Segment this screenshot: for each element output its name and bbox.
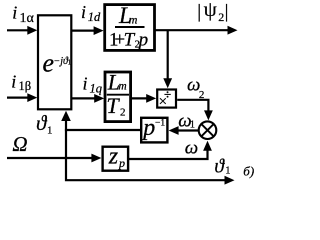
wire theta1 down and along bottom to output <box>66 130 226 180</box>
svg-text:1d: 1d <box>88 10 101 24</box>
svg-text:1: 1 <box>47 125 53 137</box>
block G2 Lm/T2 <box>105 72 131 122</box>
wire G2 output to divider <box>132 97 148 99</box>
wire i1q from U1 to G2 <box>71 97 96 99</box>
svg-text:1α: 1α <box>20 11 35 26</box>
svg-text:p: p <box>118 156 125 170</box>
svg-text:ϑ: ϑ <box>214 157 225 178</box>
svg-text:1: 1 <box>225 166 230 177</box>
divider block x/div <box>157 90 176 108</box>
block U1 rotator e^-j(theta1) <box>38 15 71 109</box>
svg-text:1β: 1β <box>19 79 32 93</box>
fraction bar of G2 <box>107 94 129 96</box>
svg-text:1: 1 <box>68 59 72 67</box>
wire input i1beta <box>7 96 29 98</box>
svg-text:ω: ω <box>185 138 198 159</box>
svg-text:i: i <box>12 2 17 22</box>
wire zp output omega to circle bottom <box>128 149 207 159</box>
svg-text:2: 2 <box>120 107 126 119</box>
svg-text:1q: 1q <box>90 82 103 96</box>
wire theta1 feedback from integrator to junction <box>65 129 140 131</box>
multiplier circle X <box>199 121 217 139</box>
svg-text:б): б) <box>243 164 254 179</box>
block integrator p^-1 <box>141 118 167 143</box>
wire psi2 magnitude output <box>156 29 230 31</box>
svg-text:×: × <box>159 94 167 110</box>
wire circle output omega1 to integrator <box>178 129 199 131</box>
svg-text:|: | <box>197 2 201 23</box>
svg-text:−1: −1 <box>155 119 165 129</box>
svg-text:ψ: ψ <box>204 0 217 21</box>
svg-text:T: T <box>106 93 120 118</box>
svg-text:p: p <box>137 29 149 50</box>
svg-text:i: i <box>81 2 86 22</box>
svg-text:i: i <box>11 72 16 92</box>
wire input Omega <box>7 157 93 159</box>
svg-text:1: 1 <box>190 119 195 130</box>
wire theta1 up into U1 bottom <box>65 119 67 130</box>
svg-text:2: 2 <box>218 10 224 24</box>
svg-text:|: | <box>225 2 229 23</box>
svg-text:m: m <box>118 81 126 93</box>
wire branch psi2 down to divider <box>167 30 169 80</box>
svg-text:2: 2 <box>199 89 205 101</box>
svg-text:i: i <box>83 73 88 93</box>
block zp <box>103 147 129 171</box>
svg-text:m: m <box>129 12 138 26</box>
svg-text:z: z <box>108 143 119 169</box>
svg-text:Ω: Ω <box>12 132 27 156</box>
wire divider output omega2 to circle top <box>177 100 208 113</box>
wire i1d from U1 to G1 <box>71 30 95 32</box>
wire input i1alpha <box>7 29 29 31</box>
block G1 Lm/(1+T2p) <box>105 5 155 51</box>
svg-text:e: e <box>43 49 55 78</box>
svg-text:p: p <box>141 115 155 141</box>
fraction bar of G1 <box>115 26 145 28</box>
